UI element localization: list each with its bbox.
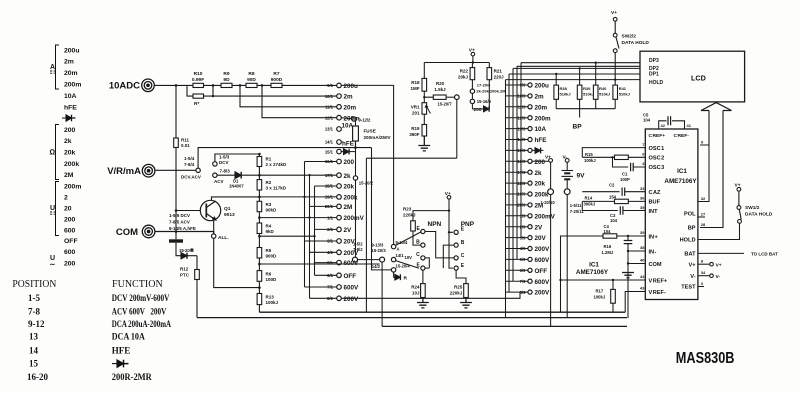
- svg-text:13/1: 13/1: [325, 127, 334, 132]
- wire R2 to R3: [258, 190, 260, 201]
- svg-text:1-5/3: 1-5/3: [219, 155, 230, 160]
- svg-text:R10: R10: [194, 71, 203, 77]
- diode R below 15-20/4: [394, 272, 401, 280]
- svg-text:360F: 360F: [409, 132, 420, 137]
- wire V+ to deck contact: [550, 162, 552, 189]
- table header POSITION: [12, 279, 56, 290]
- resistor R20 1.5kJ: [433, 95, 446, 99]
- svg-text:200u: 200u: [344, 83, 359, 90]
- wire R* branch to 10/1: [187, 85, 337, 96]
- svg-text:OSC 2: OSC 2: [649, 156, 665, 162]
- svg-text:4/1: 4/1: [327, 250, 333, 255]
- svg-text:200mV: 200mV: [344, 215, 365, 222]
- svg-text:12/1: 12/1: [325, 115, 334, 120]
- resistor R14 300kJ on BUF: [582, 200, 645, 202]
- svg-text:DCA 200uA-200mA: DCA 200uA-200mA: [112, 319, 172, 329]
- svg-text:10V: 10V: [405, 255, 413, 260]
- wire divider tap 264 to deck: [259, 263, 379, 265]
- label PNP: [461, 221, 475, 228]
- svg-text:1-5/5 DCV: 1-5/5 DCV: [169, 213, 190, 218]
- svg-text:220J: 220J: [494, 75, 505, 80]
- node 15-20/2 contact: [353, 176, 357, 180]
- svg-text:DATA HOLD: DATA HOLD: [622, 40, 650, 46]
- svg-text:19/1: 19/1: [325, 195, 334, 200]
- svg-text:V REF-: V REF-: [649, 290, 666, 296]
- wire 8/1 to 8/9 bottom link: [341, 292, 526, 298]
- svg-text:R16: R16: [604, 244, 612, 249]
- svg-text:R19: R19: [411, 126, 420, 131]
- wire LCD line DP3: [521, 62, 640, 64]
- diode symbol at 15/9: [532, 148, 543, 154]
- svg-text:7-8/3: 7-8/3: [220, 169, 231, 174]
- wire LCD line a: [517, 65, 640, 67]
- wire contact up to deck4 line: [198, 142, 371, 169]
- legend DCV range values: [64, 183, 81, 245]
- wire V+ rail: [424, 56, 489, 79]
- svg-text:15-20/4: 15-20/4: [396, 263, 411, 268]
- svg-text:1-5/4: 1-5/4: [184, 156, 195, 161]
- wire R18 to VR1 with R20 tap: [424, 91, 433, 103]
- wire DCV contact to divider top: [215, 154, 260, 162]
- svg-text:SW1/2: SW1/2: [745, 205, 760, 211]
- svg-text:9/1: 9/1: [327, 83, 333, 88]
- wire BAT to LCD: [698, 252, 744, 254]
- legend label U~ (AC volts symbol): [50, 255, 56, 269]
- svg-text:104: 104: [610, 218, 618, 223]
- capacitor C2 154 on CAZ: [582, 191, 645, 193]
- svg-text:AME7106Y: AME7106Y: [576, 269, 609, 276]
- bank2 contact stubs: [506, 85, 528, 292]
- svg-text:hFE: hFE: [64, 104, 77, 111]
- op-amp/ADC IC1 AME7106Y box: [645, 129, 698, 300]
- svg-text:600V: 600V: [344, 285, 360, 292]
- diode protection R: [176, 243, 197, 259]
- svg-text:7-8: 7-8: [28, 306, 40, 316]
- svg-text:90kD: 90kD: [266, 208, 278, 213]
- node V+ reference supply: [469, 48, 475, 54]
- resistor R41 510kJ: [614, 80, 616, 109]
- wire NPN C to NPN lower E: [425, 258, 429, 268]
- wire LCD line HOLD: [506, 79, 641, 81]
- capacitor C3 104 on INT: [582, 201, 645, 210]
- svg-text:200: 200: [64, 127, 76, 134]
- svg-text:DCV.ACV: DCV.ACV: [181, 175, 201, 180]
- svg-text:R6: R6: [266, 272, 272, 277]
- legend diode symbol row: [62, 115, 76, 121]
- svg-text:BAT: BAT: [684, 252, 696, 258]
- svg-text:104: 104: [604, 229, 612, 234]
- svg-text:R41: R41: [619, 86, 627, 91]
- svg-text:200mV: 200mV: [535, 213, 556, 220]
- svg-text:14/1: 14/1: [325, 140, 334, 145]
- svg-text:42: 42: [661, 123, 666, 128]
- transistor Q1 9013: [200, 200, 220, 220]
- svg-text:100P: 100P: [620, 177, 630, 182]
- svg-text:200V: 200V: [535, 290, 551, 297]
- svg-text:hFE: hFE: [535, 137, 547, 144]
- svg-text:0.01: 0.01: [181, 143, 190, 148]
- svg-text:10A: 10A: [64, 93, 77, 100]
- legend bracket DCV group: [56, 182, 60, 236]
- bank2 feed bus vertical 1: [505, 80, 507, 318]
- label NPN: [428, 221, 442, 228]
- svg-text:U: U: [50, 205, 55, 212]
- table rows function column: [112, 293, 172, 382]
- wire 9-13/4 diagonal to NPN E: [396, 232, 421, 245]
- switch SW2/2 DATA HOLD: [611, 10, 617, 16]
- wire ohm deck link: [366, 157, 456, 159]
- svg-text:8/1: 8/1: [327, 296, 333, 301]
- table row 15 diode symbol: [112, 360, 129, 368]
- svg-text:39: 39: [640, 230, 645, 235]
- resistor R6: [257, 271, 262, 282]
- node 15-20/7 contact: [455, 95, 460, 100]
- svg-text:PTC: PTC: [180, 273, 190, 278]
- resistor R4: [257, 223, 262, 234]
- wire COM: [628, 263, 645, 265]
- terminal 10ADC: [142, 79, 155, 92]
- svg-text:C1: C1: [622, 172, 628, 177]
- svg-text:NPN: NPN: [428, 221, 442, 228]
- bank2 feed bus vertical 4: [516, 66, 518, 259]
- svg-text:36: 36: [640, 196, 645, 201]
- svg-text:154: 154: [609, 194, 617, 199]
- label switch decks at Q1: [169, 213, 196, 231]
- svg-text:200: 200: [344, 159, 355, 166]
- svg-text:C: C: [416, 252, 420, 258]
- svg-text:15-20/7: 15-20/7: [438, 102, 453, 107]
- svg-text:10ADC: 10ADC: [109, 81, 140, 92]
- wire ACV contact to diode D1: [217, 174, 235, 176]
- svg-text:DP1: DP1: [649, 71, 659, 77]
- svg-text:600V: 600V: [535, 257, 551, 264]
- resistor R3: [257, 201, 262, 211]
- capacitor C5 104: [643, 113, 651, 123]
- svg-text:16/1: 16/1: [325, 159, 334, 164]
- svg-text:100kJ: 100kJ: [594, 295, 606, 300]
- svg-text:IC1: IC1: [677, 168, 687, 175]
- wire COM terminal to ALL contact: [156, 232, 214, 234]
- wire divider tap 200k row: [259, 196, 336, 198]
- svg-text:B: B: [461, 240, 465, 246]
- svg-text:C AZ: C AZ: [649, 190, 662, 196]
- svg-text:10/1: 10/1: [325, 94, 334, 99]
- svg-text:17/1: 17/1: [325, 173, 334, 178]
- svg-text:27: 27: [701, 212, 706, 217]
- wire LCD line DP1: [509, 73, 640, 75]
- resistor R2: [257, 180, 262, 190]
- fuse 200mA/250V: [355, 121, 357, 126]
- wire Q1 collector to divider: [212, 197, 260, 201]
- node 14/1 10V contact: [391, 257, 395, 261]
- svg-text:ACV 600V 200V: ACV 600V 200V: [112, 306, 167, 316]
- IC right pin 8 V+ node: [698, 263, 710, 265]
- svg-text:1N4007: 1N4007: [229, 184, 244, 189]
- svg-text:V-: V-: [716, 274, 721, 280]
- node 15-20/4 contact: [391, 268, 395, 272]
- label IC1 AME7106Y (system): [576, 262, 609, 277]
- node 9-13/4 contact: [391, 244, 395, 248]
- IC right pin 34 V- node: [698, 275, 710, 277]
- bottom bus line3: [382, 325, 627, 327]
- wire tap node R8/R7 to 12/1: [262, 85, 337, 117]
- svg-text:DCA 10A: DCA 10A: [112, 332, 145, 342]
- svg-text:510kJ: 510kJ: [583, 92, 594, 97]
- svg-text:20kJ: 20kJ: [458, 75, 469, 80]
- label IC1 AME7106Y inside: [664, 168, 697, 185]
- node deck 1-5/11 7-20/11 contact: [564, 189, 570, 195]
- svg-text:SW2/2: SW2/2: [622, 34, 637, 40]
- wire divider tap mid: [259, 235, 314, 237]
- svg-text:Q1: Q1: [224, 206, 231, 212]
- svg-text:20V: 20V: [535, 235, 547, 242]
- resistor R5: [257, 248, 262, 259]
- IC internal labels left column: [649, 133, 690, 139]
- svg-text:600V: 600V: [535, 279, 551, 286]
- resistor R9: [221, 83, 232, 87]
- svg-text:200u: 200u: [535, 83, 550, 90]
- svg-text:R13: R13: [266, 295, 275, 300]
- svg-text:C REF+: C REF+: [649, 133, 666, 139]
- svg-text:ALL.: ALL.: [218, 235, 229, 241]
- svg-text:R: R: [404, 276, 408, 282]
- resistor R* parallel shunt: [193, 94, 204, 98]
- svg-text:MAS830B: MAS830B: [676, 350, 735, 367]
- svg-text:HOLD: HOLD: [649, 80, 664, 86]
- svg-text:1-5/11: 1-5/11: [570, 203, 582, 208]
- battery 9V: [562, 162, 574, 189]
- svg-text:9V: 9V: [577, 173, 586, 180]
- node deck 1-20/10 contact: [548, 189, 554, 195]
- svg-text:0.99F: 0.99F: [192, 77, 204, 83]
- svg-text:600: 600: [64, 249, 76, 256]
- svg-text:R11: R11: [181, 138, 190, 143]
- wire 15-20/4 left to tap: [372, 148, 392, 270]
- resistor R24 10J: [422, 270, 424, 283]
- svg-text:15-20/3: 15-20/3: [372, 248, 387, 253]
- wire R11 down to common bar: [175, 148, 177, 240]
- resistor R10: [193, 83, 204, 87]
- svg-text:1/1: 1/1: [327, 215, 333, 220]
- svg-text:V+: V+: [545, 154, 551, 160]
- node 7-8/3 ACV contact: [213, 173, 217, 177]
- common junction bar: [169, 239, 183, 242]
- bank1 contact position labels: [325, 83, 334, 301]
- svg-text:BUF: BUF: [649, 200, 661, 206]
- svg-text:41: 41: [687, 123, 692, 128]
- IC right pin 27 POL: [698, 216, 705, 218]
- svg-text:INT: INT: [649, 209, 659, 215]
- svg-text:16-20: 16-20: [27, 372, 48, 382]
- wire arrow leg to IC pin 9: [700, 111, 709, 146]
- wire arrow leg to IC BP pin: [700, 111, 723, 228]
- wire V+ down to PNP emitter: [449, 199, 453, 268]
- svg-text:220kJ: 220kJ: [450, 291, 463, 296]
- label BP: [573, 124, 583, 131]
- model label MAS830B: [676, 350, 735, 367]
- table header FUNCTION: [112, 279, 163, 290]
- svg-text:201: 201: [412, 110, 420, 115]
- resistor R7: [271, 83, 282, 87]
- terminal COM: [142, 225, 155, 238]
- svg-text:POL: POL: [684, 211, 696, 217]
- svg-text:9kD: 9kD: [266, 229, 275, 234]
- wire divider tap 200mV row: [259, 217, 336, 219]
- diode at 15/1 contact: [341, 149, 355, 155]
- LCD box: [640, 51, 745, 102]
- svg-text:200m: 200m: [64, 183, 81, 190]
- wire OSC1 loop: [582, 148, 645, 158]
- node 1-5/4 7-8/4 contact: [196, 168, 200, 172]
- svg-text:FUNCTION: FUNCTION: [112, 279, 163, 290]
- svg-text:20m: 20m: [344, 104, 357, 111]
- svg-text:510kJ: 510kJ: [619, 92, 630, 97]
- resistor R8: [246, 83, 257, 87]
- svg-text:R18: R18: [411, 80, 420, 85]
- resistor R22 20kJ: [470, 68, 475, 80]
- svg-text:38: 38: [640, 245, 645, 250]
- svg-text:7-8/5 ACV: 7-8/5 ACV: [169, 220, 190, 225]
- resistor R23 220kJ: [413, 211, 449, 246]
- svg-text:33: 33: [640, 186, 645, 191]
- wire deck11 down to bus: [566, 195, 568, 318]
- node V+ hfe supply: [445, 191, 451, 197]
- wire PNP B down: [443, 245, 454, 268]
- svg-text:34: 34: [701, 270, 706, 275]
- svg-text:2k: 2k: [535, 170, 543, 177]
- svg-text:200: 200: [474, 107, 482, 113]
- svg-text:2k: 2k: [64, 138, 72, 145]
- svg-text:200: 200: [64, 260, 76, 267]
- svg-text:OSC 1: OSC 1: [649, 146, 665, 152]
- wire NPN E to PNP C: [425, 232, 454, 258]
- LCD pin labels: [649, 58, 664, 86]
- svg-text:9-14/5 A,hFE: 9-14/5 A,hFE: [169, 226, 196, 231]
- svg-text:20k: 20k: [535, 181, 546, 188]
- resistor R12 PTC: [196, 256, 198, 270]
- svg-text:1-20/10: 1-20/10: [541, 200, 556, 205]
- svg-text:R4: R4: [266, 224, 272, 229]
- switch SW1/2 DATA HOLD: [735, 182, 741, 188]
- ground under R19: [418, 136, 430, 151]
- wire deck2 to deck3: [358, 259, 380, 261]
- svg-text:2M: 2M: [344, 204, 353, 211]
- junction dots on divider: [258, 153, 261, 289]
- svg-text:200m: 200m: [64, 81, 81, 88]
- resistor R21 220J: [487, 68, 492, 80]
- svg-text:900D: 900D: [266, 254, 278, 259]
- svg-text:200k: 200k: [535, 192, 550, 199]
- svg-text:2M: 2M: [64, 172, 74, 179]
- svg-text:35: 35: [640, 205, 645, 210]
- legend label ohm: [50, 148, 56, 157]
- wire 200uA input from 9/1 down to 9-13/4: [341, 85, 393, 244]
- resistor R11 shunt 0.01: [175, 85, 177, 138]
- legend ohm range values: [64, 127, 79, 179]
- svg-text:COM: COM: [649, 262, 662, 268]
- svg-text:R2: R2: [266, 180, 272, 185]
- wire HOLD to SW1/2: [698, 223, 740, 239]
- legend label A (DC amps symbol): [50, 64, 55, 71]
- svg-text:BP: BP: [688, 226, 696, 232]
- IC right pin 28 BP: [701, 222, 706, 227]
- legend ACV range values: [64, 249, 76, 267]
- bank2 feed bus vertical 5: [520, 63, 522, 238]
- wire 14/1 diagonal down: [396, 261, 419, 269]
- wire LCD line DP2: [513, 67, 640, 69]
- LCD connection block arrow: [701, 103, 732, 111]
- svg-text:R8: R8: [248, 71, 254, 77]
- svg-text:20m: 20m: [64, 70, 78, 77]
- svg-text:220kJ: 220kJ: [403, 213, 416, 218]
- svg-text:R9: R9: [223, 71, 229, 77]
- wire fuse bus down: [355, 141, 357, 257]
- svg-text:600: 600: [64, 227, 76, 234]
- svg-text:C REF-: C REF-: [674, 133, 690, 139]
- legend bracket DCA group: [56, 45, 60, 89]
- svg-text:20k: 20k: [64, 149, 76, 156]
- ground under R24: [417, 298, 429, 308]
- legend label U (DC volts symbol): [50, 205, 55, 212]
- wire R4 to R5: [258, 234, 260, 248]
- svg-text:2m: 2m: [344, 94, 354, 101]
- svg-text:HOLD: HOLD: [680, 238, 696, 244]
- legend DCA range values: [64, 47, 81, 111]
- svg-text:32: 32: [701, 196, 706, 201]
- svg-text:R14: R14: [585, 196, 593, 201]
- svg-text:2V: 2V: [344, 227, 353, 234]
- resistor R13: [257, 294, 262, 305]
- capacitor C1 100P on OSC3: [613, 157, 646, 167]
- svg-text:9-12: 9-12: [28, 319, 45, 329]
- svg-text:100kJ: 100kJ: [266, 300, 279, 305]
- svg-text:90D: 90D: [247, 77, 256, 83]
- svg-text:18/1: 18/1: [325, 184, 334, 189]
- svg-text:R5: R5: [266, 248, 272, 253]
- svg-text:10A: 10A: [342, 123, 354, 130]
- wire Q1 emitter to ALL contact: [213, 221, 215, 234]
- bank2 range value labels: [535, 83, 556, 297]
- bank2 feed bus vertical 2: [508, 74, 510, 292]
- svg-text:R3: R3: [266, 202, 272, 207]
- svg-text:DCV 200mV-600V: DCV 200mV-600V: [112, 293, 170, 303]
- svg-text:B: B: [416, 239, 420, 245]
- wire R20 to contact: [446, 96, 454, 98]
- svg-text:20m: 20m: [535, 104, 548, 111]
- svg-text:BP: BP: [573, 124, 583, 131]
- svg-text:510kJ: 510kJ: [599, 92, 610, 97]
- svg-text:C2: C2: [609, 183, 615, 188]
- svg-text:6/1: 6/1: [327, 273, 333, 278]
- svg-text:LCD: LCD: [691, 74, 706, 83]
- IC top pins 42 41 with capacitor C5: [659, 121, 685, 129]
- hfe socket PNP contacts E B C E: [454, 230, 458, 270]
- diode 200 range: [474, 107, 482, 113]
- svg-text:200V: 200V: [344, 296, 360, 303]
- svg-text:2/1: 2/1: [327, 227, 333, 232]
- bank2 contact position labels: [517, 83, 526, 295]
- hfe socket NPN contacts E B C E: [421, 229, 425, 270]
- label deck 15-20/8: [179, 248, 194, 253]
- svg-text:11/1: 11/1: [325, 105, 334, 110]
- node 15-16/5 contact: [471, 93, 473, 99]
- svg-text:OFF: OFF: [64, 238, 78, 245]
- wire deck10 down to bus: [550, 195, 552, 327]
- svg-text:10J: 10J: [412, 291, 420, 296]
- svg-text:R38: R38: [560, 86, 568, 91]
- svg-text:7-8/2: 7-8/2: [353, 247, 363, 252]
- svg-text:A: A: [397, 247, 400, 252]
